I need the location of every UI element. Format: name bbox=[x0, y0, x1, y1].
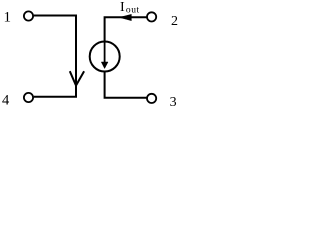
svg-text:2: 2 bbox=[171, 14, 178, 29]
svg-text:I: I bbox=[120, 0, 125, 15]
svg-text:out: out bbox=[126, 5, 140, 15]
svg-text:4: 4 bbox=[2, 93, 10, 108]
svg-text:1: 1 bbox=[4, 9, 12, 25]
svg-text:3: 3 bbox=[170, 95, 177, 108]
